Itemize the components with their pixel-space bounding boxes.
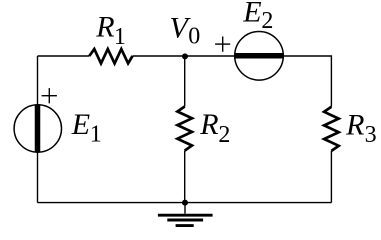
voltage source E2 [235, 32, 284, 81]
wire: middle vertical from node V0 down to R2 [184, 56, 186, 107]
label E1 [71, 108, 102, 147]
wire: top-left horizontal from left corner to R1 [38, 55, 90, 57]
junction dot at ground node [182, 200, 188, 206]
node V0 junction dot [182, 53, 188, 59]
wire: from E2 to top-right corner and down to R3 [283, 56, 331, 107]
svg-text:E: E [242, 0, 261, 29]
voltage source E1 [14, 105, 61, 152]
wire: bottom horizontal [38, 202, 332, 204]
wire: from node V0 to voltage source E2 [185, 55, 235, 57]
label R3 [345, 109, 377, 149]
polarity + of E1 [42, 88, 57, 103]
label E2 [242, 0, 273, 34]
label R2 [199, 108, 230, 148]
svg-text:E: E [71, 108, 90, 141]
wire: left vertical top, from top-left corner down to E1 [37, 56, 39, 105]
svg-text:0: 0 [188, 24, 200, 50]
svg-text:R: R [95, 11, 114, 44]
polarity + of E2 [215, 37, 230, 52]
resistor R3 [324, 107, 339, 151]
ground [158, 203, 213, 226]
svg-text:3: 3 [365, 122, 377, 148]
svg-text:2: 2 [261, 8, 273, 34]
svg-text:2: 2 [218, 122, 230, 148]
wire: middle vertical from R2 down to ground junction [184, 151, 186, 203]
resistor R2 [177, 107, 192, 151]
svg-text:1: 1 [114, 24, 126, 50]
label R1 [95, 11, 126, 50]
wire: top middle from R1 to node V0 [133, 55, 186, 57]
label V0 [170, 11, 201, 49]
svg-text:1: 1 [90, 121, 102, 147]
resistor R1 [89, 49, 132, 63]
svg-text:R: R [345, 109, 364, 142]
wire: from R3 down to bottom-right corner [330, 151, 332, 203]
wire: left vertical bottom, from E1 to bottom-left corner [37, 152, 39, 202]
svg-text:R: R [199, 108, 218, 141]
